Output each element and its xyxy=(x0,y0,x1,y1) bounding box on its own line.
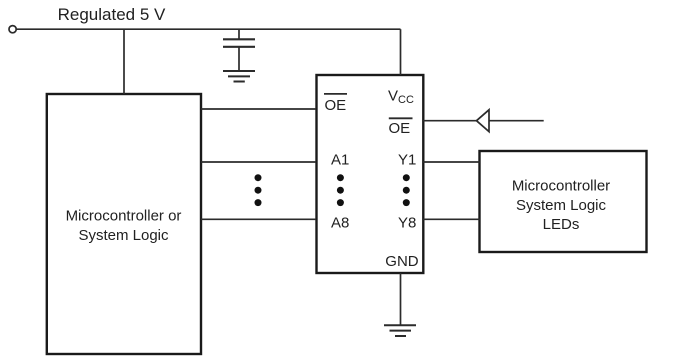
svg-text:System Logic: System Logic xyxy=(78,227,169,244)
svg-text:A1: A1 xyxy=(331,151,349,168)
svg-text:Regulated 5 V: Regulated 5 V xyxy=(58,5,166,24)
svg-text:OE: OE xyxy=(325,97,347,114)
svg-text:System Logic: System Logic xyxy=(516,197,607,214)
svg-text:Microcontroller or: Microcontroller or xyxy=(66,207,182,224)
svg-text:Microcontroller: Microcontroller xyxy=(512,178,610,195)
svg-text:Y1: Y1 xyxy=(398,151,416,168)
svg-text:GND: GND xyxy=(385,253,419,270)
svg-text:Y8: Y8 xyxy=(398,215,416,232)
svg-text:OE: OE xyxy=(389,120,411,137)
svg-text:A8: A8 xyxy=(331,215,349,232)
svg-text:LEDs: LEDs xyxy=(543,216,580,233)
